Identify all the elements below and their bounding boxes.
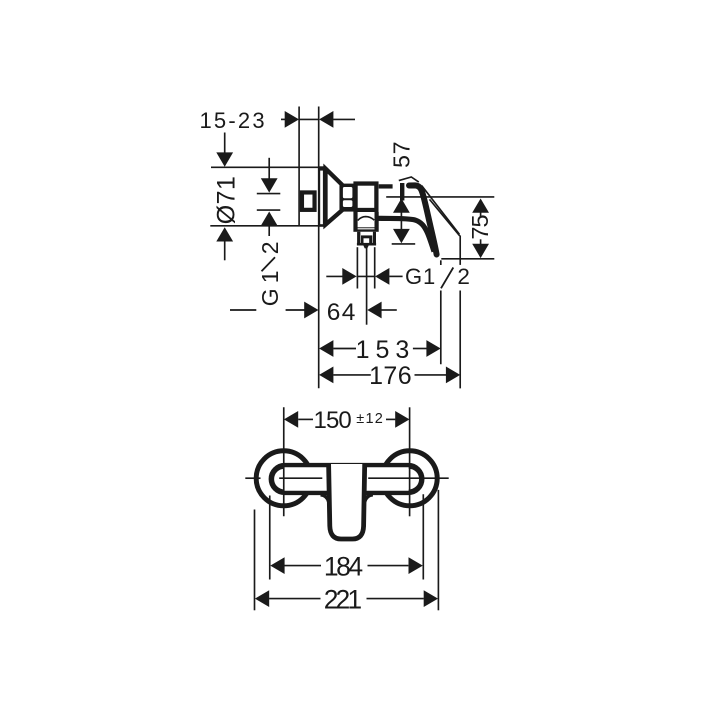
svg-text:1: 1	[257, 271, 283, 284]
svg-text:176: 176	[369, 362, 412, 390]
svg-text:184: 184	[324, 551, 362, 581]
svg-text:G: G	[405, 264, 422, 289]
svg-text:1: 1	[423, 264, 435, 289]
svg-text:±12: ±12	[356, 411, 384, 427]
svg-text:15-23: 15-23	[200, 108, 267, 133]
svg-text:64: 64	[327, 299, 357, 326]
svg-text:Ø71: Ø71	[213, 176, 241, 224]
svg-text:G: G	[257, 288, 283, 306]
svg-text:150: 150	[314, 407, 352, 434]
svg-text:2: 2	[457, 264, 470, 289]
svg-text:153: 153	[356, 336, 416, 364]
svg-text:221: 221	[324, 584, 362, 614]
svg-text:2: 2	[257, 242, 283, 255]
svg-text:75: 75	[467, 215, 493, 240]
svg-text:57: 57	[388, 141, 414, 168]
